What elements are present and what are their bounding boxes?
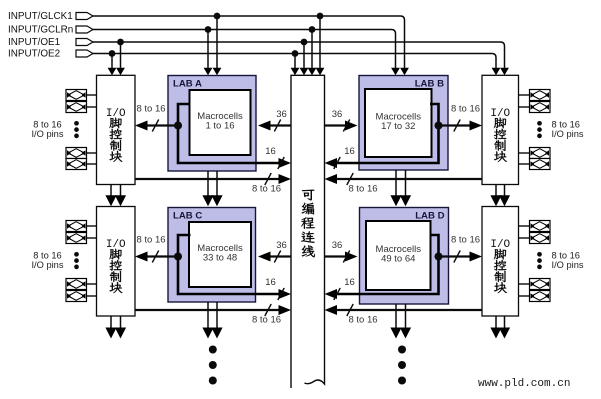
svg-text:8 to 16: 8 to 16 (252, 315, 281, 326)
wire GLCK1 drop to PIA (316, 13, 325, 76)
svg-text:8 to 16: 8 to 16 (252, 184, 281, 195)
wire GCLRn drop to LAB A (204, 26, 213, 75)
svg-text:1 to 16: 1 to 16 (205, 121, 234, 132)
svg-text:8 to 16: 8 to 16 (451, 104, 480, 115)
wire 8 to 16: LAB B to right I/O block (439, 104, 483, 132)
svg-text:8 to 16: 8 to 16 (451, 235, 480, 246)
svg-text:36: 36 (332, 240, 343, 251)
I/O control block (right row 2) (482, 207, 519, 317)
input pin INPUT/GCLRn (8, 24, 93, 35)
wire INPUT/OE1 horizontal to right turn-down (93, 42, 505, 46)
wire 8 to 16: left I/O block to PIA (135, 304, 291, 326)
svg-text:8 to 16: 8 to 16 (552, 251, 580, 261)
watermark www.pld.com.cn (478, 378, 570, 390)
svg-text:8 to 16: 8 to 16 (33, 120, 61, 130)
LAB C feedback bus (thick) and 16-line to PIA (178, 235, 291, 300)
wire GLCK1 drop to LAB A (213, 13, 222, 76)
wires: left I/O row1 to left I/O row2 (105, 185, 126, 207)
I/O control block (right row 1) (482, 75, 519, 184)
wire 36: PIA to LAB D macrocells (325, 240, 358, 263)
svg-text:I/O pins: I/O pins (552, 129, 584, 139)
LAB B feedback bus (thick) and 16-line to PIA (325, 104, 439, 169)
wire INPUT/OE2 horizontal to right turn-down (93, 54, 496, 58)
wire GCLRn drop to LAB B (391, 34, 400, 76)
svg-text:8 to 16: 8 to 16 (136, 104, 165, 115)
I/O pins right row 1 (8 to 16 I/O pins) (519, 90, 584, 170)
wires: left I/O row2 outputs downward (105, 316, 126, 339)
I/O pins left row 1 (8 to 16 I/O pins) (31, 90, 96, 170)
svg-text:INPUT/OE2: INPUT/OE2 (8, 48, 60, 59)
LAB block A (LAB A) (168, 76, 256, 172)
wires: LAB B to LAB D (390, 170, 411, 206)
node: LAB A feedback junction dot (174, 122, 182, 130)
wire INPUT/GCLRn horizontal to right turn-down (93, 30, 396, 34)
svg-text:8 to 16: 8 to 16 (348, 315, 377, 326)
svg-text:LAB A: LAB A (173, 79, 202, 90)
svg-text:36: 36 (276, 109, 287, 120)
svg-text:LAB C: LAB C (173, 211, 202, 222)
svg-text:LAB D: LAB D (415, 211, 444, 222)
node: continuation dots below LAB C (209, 346, 217, 385)
svg-text:36: 36 (332, 109, 343, 120)
LAB block B (LAB B) (359, 76, 448, 171)
node: continuation dots below LAB D (398, 346, 406, 385)
svg-text:INPUT/GLCK1: INPUT/GLCK1 (8, 11, 73, 22)
LAB A feedback bus (thick) and 16-line to PIA (178, 104, 291, 169)
wire OE1 drop to right I/O block (500, 46, 509, 75)
svg-text:8 to 16: 8 to 16 (552, 120, 580, 130)
svg-text:www.pld.com.cn: www.pld.com.cn (478, 378, 570, 390)
svg-text:8 to 16: 8 to 16 (33, 251, 61, 261)
wire 36: PIA to LAB A macrocells (258, 109, 291, 132)
programmable interconnect array (PIA) column (291, 75, 325, 388)
wires: right I/O row1 to right I/O row2 (490, 185, 510, 207)
LAB block D (LAB D) (360, 208, 449, 305)
svg-text:49 to 64: 49 to 64 (381, 254, 415, 265)
svg-text:8 to 16: 8 to 16 (136, 235, 165, 246)
node: LAB D feedback junction dot (435, 253, 443, 261)
wire GCLRn drop to PIA (308, 26, 317, 75)
I/O control block (left row 1) (97, 75, 136, 184)
wires: LAB D outputs downward (390, 304, 411, 339)
wires: right I/O row2 outputs downward (490, 316, 510, 339)
LAB block C (LAB C) (168, 208, 256, 303)
wire OE2 drop to left I/O block (108, 50, 117, 75)
I/O control block (left row 2) (97, 207, 136, 317)
wire INPUT/GLCK1 horizontal to right turn-down (93, 16, 405, 20)
node: LAB C feedback junction dot (174, 253, 182, 261)
input pin INPUT/GLCK1 (8, 11, 93, 22)
wire 8 to 16: left I/O block to PIA (135, 173, 291, 195)
svg-text:16: 16 (265, 277, 276, 288)
wire 36: PIA to LAB C macrocells (258, 240, 291, 263)
svg-text:INPUT/OE1: INPUT/OE1 (8, 37, 61, 48)
input pin INPUT/OE2 (8, 48, 93, 59)
wire 8 to 16: right I/O block to PIA (325, 173, 483, 195)
svg-text:33 to 48: 33 to 48 (203, 253, 237, 264)
svg-text:I/O pins: I/O pins (31, 260, 63, 270)
wire OE2 drop to right I/O block (492, 58, 501, 76)
wire 8 to 16: LAB A to left I/O block (135, 104, 178, 132)
wire 8 to 16: LAB C to left I/O block (135, 235, 178, 263)
wire 36: PIA to LAB B macrocells (325, 109, 358, 132)
svg-text:16: 16 (344, 146, 355, 157)
node: LAB B feedback junction dot (435, 122, 443, 130)
svg-text:8 to 16: 8 to 16 (348, 184, 377, 195)
wires: LAB C outputs downward (202, 302, 222, 339)
wire 8 to 16: right I/O block to PIA (325, 304, 483, 326)
wire OE2 drop to PIA (291, 50, 300, 75)
svg-text:17 to 32: 17 to 32 (381, 121, 415, 132)
svg-text:LAB B: LAB B (415, 79, 444, 90)
svg-text:INPUT/GCLRn: INPUT/GCLRn (8, 24, 73, 35)
wire OE1 drop to left I/O block (116, 39, 125, 76)
I/O pins right row 2 (8 to 16 I/O pins) (519, 221, 584, 302)
svg-text:I/O pins: I/O pins (31, 129, 63, 139)
svg-text:16: 16 (344, 277, 355, 288)
input pin INPUT/OE1 (8, 37, 93, 48)
wires: LAB A to LAB C (202, 171, 222, 206)
svg-text:I/O pins: I/O pins (552, 260, 584, 270)
I/O pins left row 2 (8 to 16 I/O pins) (31, 221, 96, 302)
svg-text:36: 36 (276, 240, 287, 251)
wire OE1 drop to PIA (300, 39, 309, 76)
wire GLCK1 drop to LAB B (400, 20, 409, 75)
svg-text:16: 16 (265, 146, 276, 157)
wire 8 to 16: LAB D to right I/O block (439, 235, 483, 263)
LAB D feedback bus (thick) and 16-line to PIA (325, 235, 439, 300)
